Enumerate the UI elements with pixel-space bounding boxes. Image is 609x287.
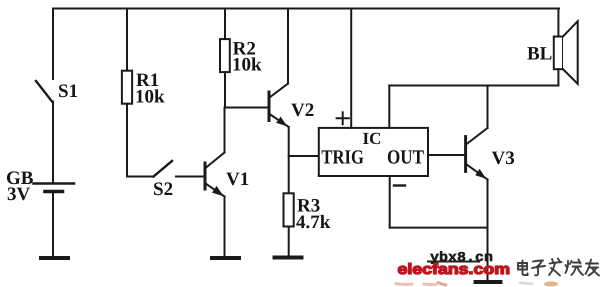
ground battery [41, 256, 68, 260]
transistor V1 base bar [204, 163, 207, 189]
watermark chinese 电子发烧友 [518, 259, 599, 276]
wire V3 emitter vertical [487, 180, 489, 282]
svg-text:4.7k: 4.7k [296, 212, 331, 233]
svg-text:TRIG: TRIG [321, 147, 364, 169]
svg-text:S1: S1 [58, 81, 78, 102]
wire V2 collector vertical [287, 9, 289, 84]
svg-text:V1: V1 [226, 169, 249, 190]
plus label of IC supply [337, 112, 349, 124]
switch S2 [154, 161, 173, 177]
ground V3 [476, 280, 501, 284]
wire TRIG input [289, 155, 319, 157]
transistor V3 emitter [466, 164, 488, 180]
wire R1 branch upper [126, 9, 128, 71]
wire V2 emitter vertical [288, 127, 290, 193]
transistor V2 base bar [268, 92, 271, 121]
wire R2 branch lower [224, 72, 226, 107]
wire battery branch lower [52, 193, 54, 256]
wire V1 collector vertical [224, 108, 226, 153]
battery GB short plate [45, 190, 63, 194]
transistor V3 emitter arrow [475, 169, 486, 179]
svg-text:V2: V2 [291, 100, 314, 121]
svg-text:S2: S2 [153, 179, 173, 200]
wire IC minus pin [389, 176, 391, 228]
wire V3 collector vertical [487, 86, 489, 129]
wire battery branch upper [52, 9, 54, 80]
ground R3 [275, 256, 302, 260]
transistor V1 emitter [206, 184, 225, 197]
svg-text:BL: BL [527, 44, 552, 65]
wire OUT to V3 base [428, 154, 465, 156]
svg-text:10k: 10k [135, 87, 165, 108]
wire bottom link to V3 emitter [390, 227, 488, 229]
svg-text:OUT: OUT [387, 147, 425, 169]
wire S2 left [127, 176, 154, 178]
transistor V3 collector [466, 128, 488, 145]
wire top supply rail [53, 8, 559, 10]
transistor V2 emitter [270, 114, 289, 127]
transistor V2 emitter arrow [276, 117, 287, 127]
battery GB long plate [34, 182, 75, 185]
transistor V1 collector [206, 153, 225, 169]
svg-text:3V: 3V [7, 184, 31, 205]
svg-text:IC: IC [363, 129, 382, 148]
svg-text:V3: V3 [492, 148, 515, 169]
resistor R2 body [220, 39, 230, 72]
svg-text:10k: 10k [232, 55, 262, 76]
minus label of IC [394, 184, 405, 186]
wire speaker top lead [557, 9, 559, 37]
wire R3 lower [288, 227, 290, 256]
wire battery branch middle [52, 102, 54, 183]
wire IC plus supply pin [350, 9, 352, 128]
svg-text:elecfans.com: elecfans.com [398, 261, 511, 278]
wire speaker bottom lead [557, 69, 559, 85]
speaker BL cone [563, 21, 578, 84]
op-amp U1 IC box [319, 128, 428, 176]
wire S2 right to V1 base [176, 176, 204, 178]
wire IC top pin to rail [388, 86, 390, 128]
watermark ybx8 underline [427, 261, 480, 263]
speaker BL body [554, 37, 563, 70]
resistor R1 body [122, 71, 132, 104]
wire base link to V2 [225, 107, 269, 109]
wire V1 emitter vertical [224, 197, 226, 257]
resistor R3 body [284, 193, 294, 226]
ground V1 [212, 256, 239, 260]
transistor V2 collector [270, 84, 289, 98]
wire R2 branch upper [224, 9, 226, 40]
wire R1 branch lower [126, 104, 128, 177]
wire speaker rail [389, 85, 558, 87]
transistor V3 base bar [464, 137, 467, 172]
transistor V1 emitter arrow [212, 186, 224, 196]
switch S1 [36, 81, 52, 102]
faint reflection smudges [396, 282, 558, 287]
